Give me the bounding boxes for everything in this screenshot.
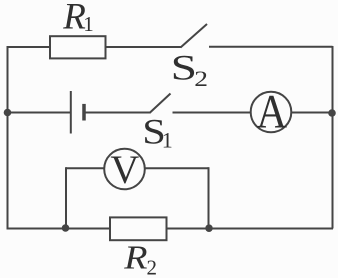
ammeter U1 circle bbox=[251, 92, 292, 133]
battery short plate bbox=[82, 104, 86, 121]
resistor R2 box bbox=[110, 217, 167, 240]
battery long plate bbox=[70, 91, 72, 134]
wire: voltmeter right drop to bottom rail bbox=[208, 167, 210, 228]
wire: bottom rail left of R2 bbox=[7, 228, 112, 230]
wire: ammeter to right rail bbox=[291, 112, 333, 114]
wire: top rail between R1 and S2 bbox=[105, 46, 181, 48]
switch S1 blade bbox=[150, 94, 171, 114]
svg-text:1: 1 bbox=[83, 12, 94, 36]
junction dot: left rail / battery branch bbox=[4, 109, 12, 117]
junction dot: bottom rail / voltmeter left bbox=[62, 224, 70, 232]
voltmeter circle bbox=[104, 149, 145, 190]
label S2 bbox=[171, 48, 197, 88]
svg-text:1: 1 bbox=[162, 127, 173, 152]
wire: right vertical rail bbox=[332, 46, 334, 229]
wire: switch S1 to ammeter bbox=[173, 112, 252, 114]
svg-text:R: R bbox=[123, 238, 147, 276]
label S1 bbox=[142, 112, 166, 152]
resistor R1 box bbox=[50, 36, 106, 58]
svg-text:S: S bbox=[171, 48, 197, 88]
junction dot: right rail / ammeter branch bbox=[328, 109, 336, 117]
wire: voltmeter left drop to bottom rail bbox=[65, 167, 67, 228]
wire: top rail right segment bbox=[209, 46, 333, 48]
svg-text:2: 2 bbox=[194, 67, 208, 91]
label R2 bbox=[123, 238, 147, 276]
svg-text:A: A bbox=[256, 85, 287, 138]
wire: voltmeter horizontal branch bbox=[66, 167, 209, 169]
svg-text:V: V bbox=[110, 147, 139, 192]
wire: left vertical rail bbox=[7, 46, 9, 229]
wire: battery to switch S1 bbox=[84, 112, 150, 114]
wire: top rail left segment bbox=[7, 46, 52, 48]
junction dot: bottom rail / voltmeter right bbox=[205, 224, 213, 232]
wire: middle branch from left rail to battery bbox=[8, 112, 71, 114]
wire: bottom rail right of R2 bbox=[166, 228, 333, 230]
ammeter letter A bbox=[256, 85, 287, 138]
switch S2 blade bbox=[181, 24, 208, 48]
svg-text:2: 2 bbox=[147, 256, 158, 278]
